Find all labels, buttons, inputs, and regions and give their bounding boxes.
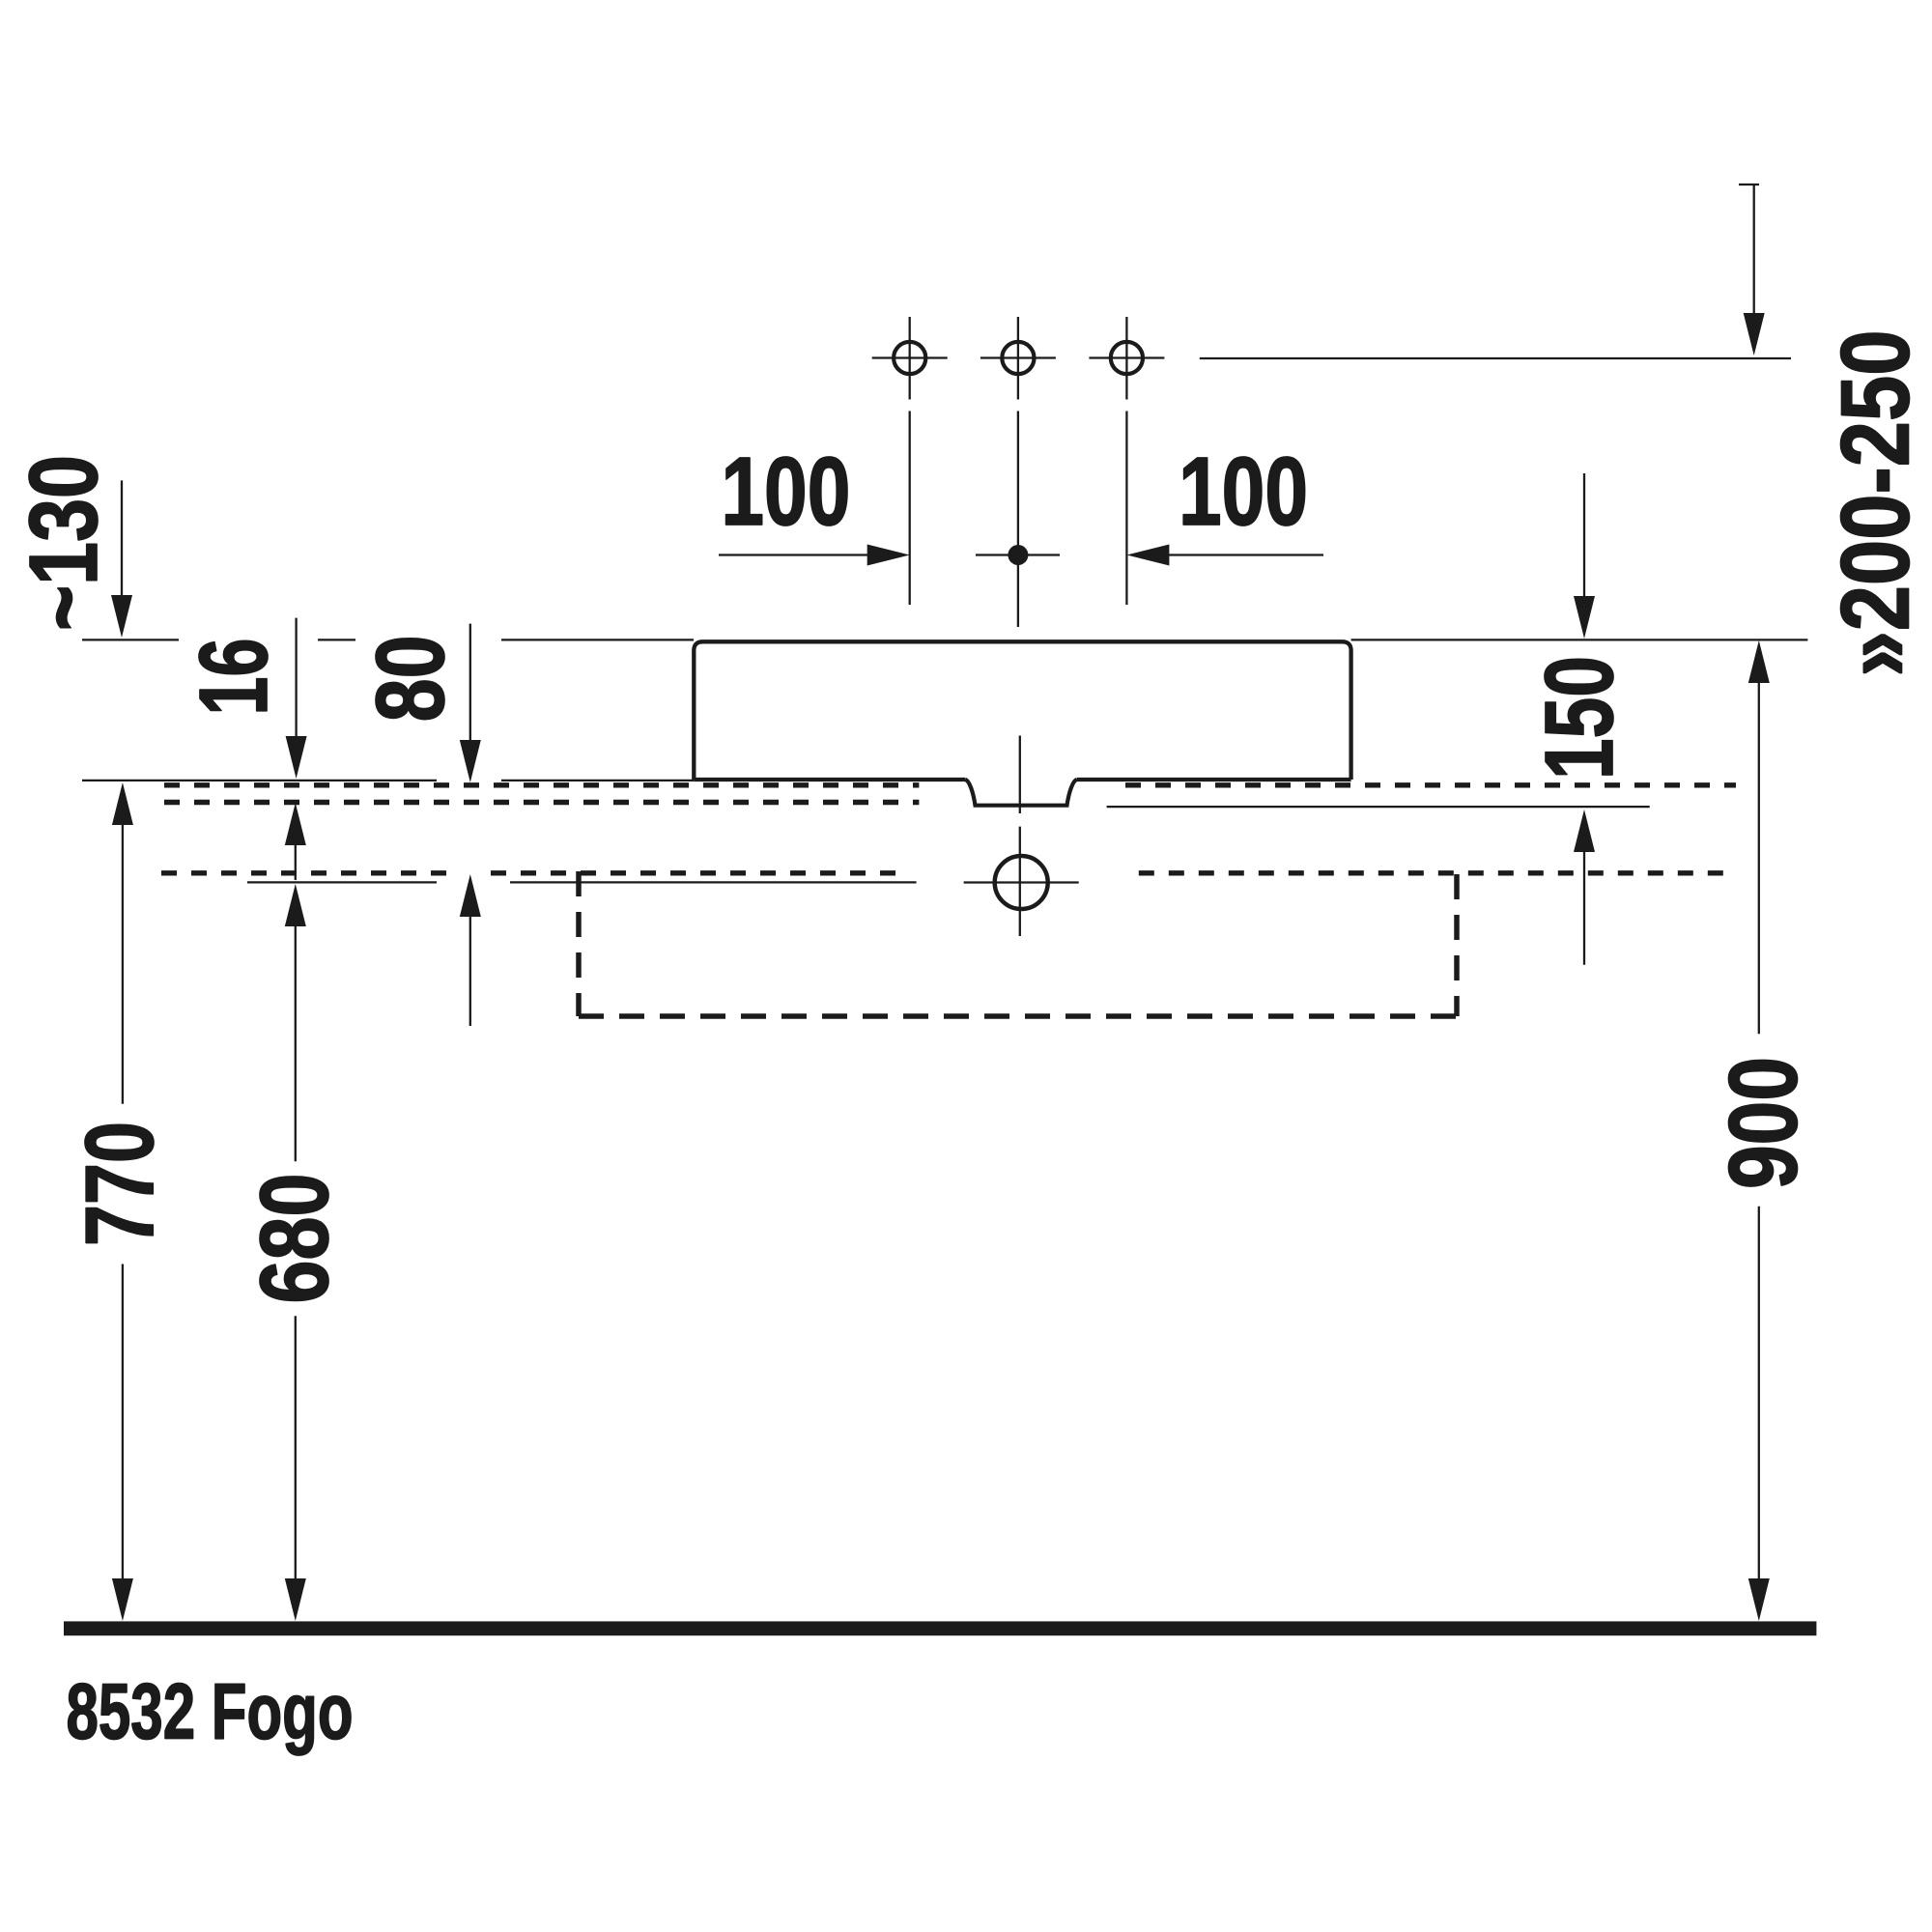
faucet level line to right dimension (1200, 357, 1791, 359)
dimension 16 vertical line (295, 618, 297, 737)
arrowhead 16 partner up (285, 803, 306, 845)
dimension 80 vertical line (469, 624, 471, 741)
faucet hole 2 centerline down (1017, 412, 1019, 628)
arrowhead 680 down (285, 1578, 306, 1621)
dashed counter line row2 left (164, 800, 919, 805)
washbasin bottom right segment (1077, 778, 1351, 781)
svg-text:680: 680 (241, 1174, 349, 1304)
dimension 200-250 top tick (1739, 184, 1759, 185)
arrowhead 100 left pointing right (867, 545, 910, 566)
faucet hole 1 crosshair horizontal (872, 356, 948, 358)
cabinet dashed left side (576, 871, 582, 1016)
dashed counter line row1 right (1125, 782, 1736, 787)
countertop level line left segment c (501, 639, 694, 640)
faucet hole 1 crosshair vertical (909, 317, 911, 400)
faucet hole circle 3 (1111, 342, 1143, 374)
floor line (64, 1621, 1816, 1635)
arrowhead 770 down (112, 1578, 133, 1621)
arrowhead 150 down (1574, 596, 1595, 639)
dimension 770 upper shaft (122, 825, 124, 1104)
arrowhead 770 up (112, 782, 133, 825)
dimension 80 lower shaft (469, 917, 471, 1026)
arrowhead 900 down (1748, 1578, 1770, 1621)
drain crosshair horizontal (964, 881, 1079, 883)
faucet hole 3 extension line down (1125, 412, 1127, 606)
arrowhead 16 down (286, 736, 307, 779)
thin reference line 150 (1107, 806, 1650, 808)
arrowhead 200-250 down (1744, 313, 1765, 355)
dimension 100 middle segment through dot (976, 554, 1060, 555)
washbasin outline (694, 641, 1350, 780)
thin reference line 680 right (510, 881, 917, 883)
dimension 150 upper shaft (1583, 473, 1585, 596)
drain centerline lower (1019, 827, 1021, 936)
dimension 900 upper shaft (1758, 683, 1760, 1034)
svg-text:~130: ~130 (10, 455, 118, 631)
arrowhead ~130 down (111, 595, 132, 638)
dimension 150 lower shaft (1583, 852, 1585, 965)
drain centerline upper (1019, 736, 1021, 814)
cabinet dashed right side (1454, 874, 1460, 1016)
dimension 100 left line (719, 554, 868, 555)
svg-text:100: 100 (721, 438, 850, 546)
faucet hole 2 crosshair horizontal (980, 356, 1056, 358)
dimension 680 upper shaft (295, 926, 297, 1161)
basin bottom line extended left segment a (82, 780, 437, 781)
faucet hole 2 crosshair vertical (1017, 317, 1019, 400)
svg-text:»200-250: »200-250 (1822, 330, 1930, 677)
faucet hole 3 crosshair vertical (1125, 317, 1127, 400)
dimension 100 right line (1168, 554, 1323, 555)
countertop level line right segment (1351, 639, 1808, 640)
faucet hole 3 crosshair horizontal (1089, 356, 1164, 358)
arrowhead 100 right pointing left (1126, 545, 1169, 566)
svg-text:770: 770 (66, 1122, 174, 1246)
dashed lower line row3 segment c (1139, 870, 1727, 875)
arrowhead 150 up (1574, 810, 1595, 852)
dimension 680 shaft between arrows (295, 845, 297, 880)
countertop level line left segment b (318, 639, 355, 640)
svg-text:100: 100 (1179, 438, 1308, 546)
faucet hole circle 1 (894, 342, 925, 374)
countertop level line left segment a (82, 639, 179, 640)
dimension 680 lower shaft (295, 1316, 297, 1579)
basin bottom line extended left segment b (501, 780, 694, 781)
dashed counter line row1 left (164, 782, 919, 787)
arrowhead 900 up (1748, 640, 1770, 683)
washbasin drain recess (966, 780, 1077, 806)
svg-text:900: 900 (1710, 1057, 1818, 1189)
arrowhead 80 down (460, 740, 481, 782)
dashed lower line row3 segment b (491, 870, 909, 875)
svg-text:150: 150 (1525, 656, 1634, 780)
dimension 900 lower shaft (1758, 1207, 1760, 1579)
dimension ~130 vertical line (121, 480, 123, 596)
svg-text:80: 80 (356, 635, 465, 722)
drain circle (995, 856, 1048, 909)
arrowhead 680 up (285, 884, 306, 926)
faucet hole circle 2 (center) (1002, 342, 1034, 374)
dashed lower line row3 segment a (161, 870, 450, 875)
cabinet dashed bottom (579, 1013, 1457, 1019)
center dot on 100 dimension (1008, 545, 1028, 565)
svg-text:8532 Fogo: 8532 Fogo (67, 1668, 354, 1756)
dimension 770 lower shaft (122, 1264, 124, 1580)
svg-text:16: 16 (180, 639, 288, 716)
dimension 200-250 vertical line (1753, 185, 1755, 314)
faucet hole 1 extension line down (909, 412, 911, 606)
arrowhead 80 partner up (460, 874, 481, 917)
washbasin bottom left segment (694, 778, 965, 781)
thin reference line 680 left (247, 881, 437, 883)
